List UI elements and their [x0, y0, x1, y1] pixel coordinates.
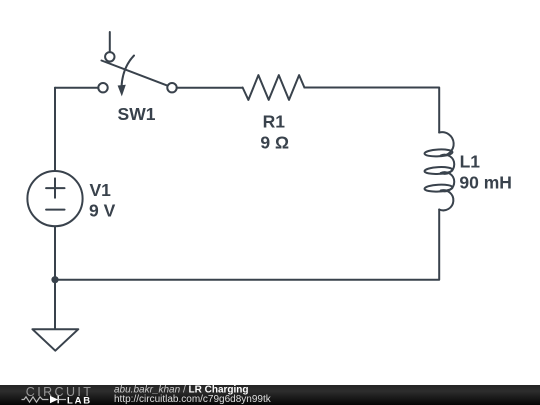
svg-text:LAB: LAB: [67, 395, 92, 405]
footer black bar: [0, 385, 540, 405]
logo resistor zigzag: [22, 397, 49, 402]
wire SW1 right contact to R1: [177, 87, 243, 89]
ground symbol triangle: [32, 329, 78, 351]
voltage source V1 circle: [27, 171, 82, 226]
inductor L1 loop 3: [424, 184, 452, 192]
svg-text:SW1: SW1: [118, 104, 156, 124]
wire V1 bottom to ground: [54, 226, 56, 329]
resistor R1 zigzag: [243, 75, 305, 100]
wire node to V1 top: [54, 88, 56, 171]
svg-text:http://circuitlab.com/c79g6d8y: http://circuitlab.com/c79g6d8yn99tk: [114, 394, 272, 405]
inductor L1 loop 1: [424, 149, 452, 157]
inductor L1 loop 2: [424, 166, 452, 174]
labels: [89, 104, 512, 220]
V1 plus sign: [54, 178, 56, 197]
switch SW1 stub wire: [109, 32, 111, 52]
switch SW1 blade: [102, 61, 168, 86]
svg-text:L1: L1: [460, 152, 481, 172]
wire from node to SW1 left contact: [55, 87, 98, 89]
switch SW1 arrowhead: [118, 85, 126, 97]
svg-text:90 mH: 90 mH: [459, 173, 512, 193]
svg-text:V1: V1: [90, 180, 112, 200]
V1 minus sign: [46, 209, 64, 211]
svg-text:R1: R1: [263, 112, 286, 132]
svg-text:9 V: 9 V: [89, 200, 116, 220]
wire R1 to top-right corner: [304, 88, 439, 133]
switch SW1 right contact circle: [167, 83, 176, 92]
junction node dot: [51, 276, 58, 283]
logo diode symbol: [50, 396, 58, 404]
inductor L1 coil bumps: [439, 132, 454, 210]
wire L1 to bottom-right corner and bottom wire to junction: [55, 210, 439, 280]
switch SW1 actuation arrow: [122, 56, 135, 88]
switch SW1 left contact circle: [98, 83, 107, 92]
svg-text:9 Ω: 9 Ω: [260, 133, 289, 153]
switch SW1 top terminal circle: [105, 52, 114, 61]
